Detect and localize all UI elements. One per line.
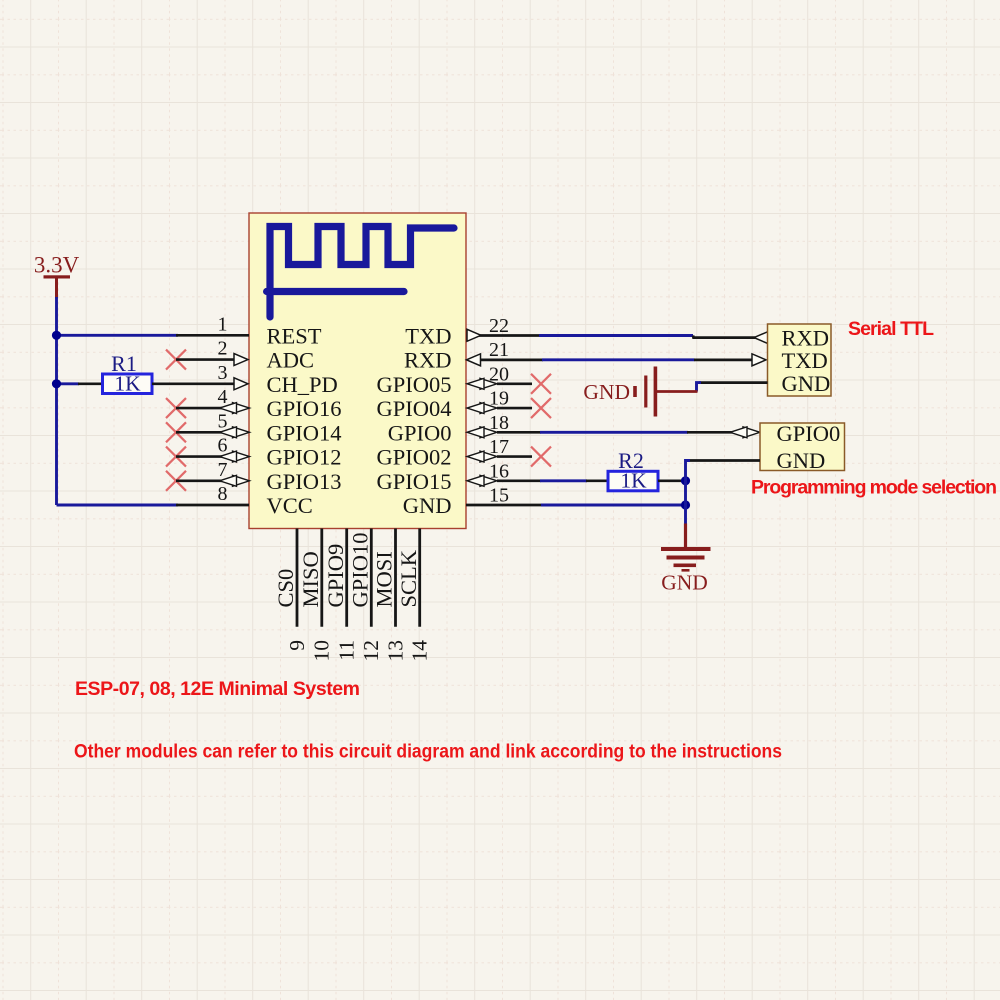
- power symbol 3.3V: [34, 253, 80, 299]
- pin 16 GPIO15 wire (black stub): [497, 479, 541, 482]
- svg-text:GND: GND: [583, 380, 630, 404]
- pin 11 GPIO9 wire: [323, 529, 359, 661]
- svg-text:5: 5: [218, 410, 228, 432]
- wire: GND rail vertical (blue): [686, 461, 691, 525]
- svg-text:GPIO10: GPIO10: [348, 532, 373, 607]
- svg-text:22: 22: [489, 315, 509, 337]
- svg-text:GND: GND: [403, 493, 452, 518]
- svg-text:Programming mode selection: Programming mode selection: [751, 477, 997, 499]
- no-connect X on pin 4: [166, 398, 186, 418]
- wire: R2 right lead: [658, 479, 686, 482]
- ground power port GND (serial): [583, 367, 697, 417]
- svg-text:GPIO04: GPIO04: [376, 396, 451, 421]
- svg-text:18: 18: [489, 412, 509, 434]
- svg-text:12: 12: [359, 640, 383, 662]
- pin 20 wire: [497, 382, 532, 385]
- wire: rail to pin 1 (blue): [57, 334, 179, 337]
- svg-text:GPIO14: GPIO14: [267, 420, 342, 445]
- pin 6 double arrow: [220, 451, 250, 462]
- pin 21 RXD wire (black stub): [480, 359, 543, 362]
- svg-text:ADC: ADC: [267, 348, 315, 373]
- pin 4 wire: [176, 386, 228, 408]
- svg-text:14: 14: [408, 640, 432, 662]
- svg-text:16: 16: [489, 460, 509, 482]
- svg-text:RXD: RXD: [404, 348, 452, 373]
- no-connect X on pin 20: [531, 374, 551, 394]
- resistor R1 1K: [103, 351, 153, 395]
- pin 12 GPIO10 wire: [348, 529, 384, 662]
- svg-text:4: 4: [218, 386, 228, 408]
- svg-text:GPIO13: GPIO13: [267, 469, 342, 494]
- svg-text:13: 13: [383, 640, 407, 662]
- wire: J2 GND lead: [688, 459, 760, 462]
- pin 8 VCC wire: [176, 483, 249, 505]
- pin 2 input arrow: [234, 354, 248, 366]
- svg-text:RXD: RXD: [782, 326, 830, 351]
- label Serial TTL: [848, 318, 934, 340]
- pin 16 double arrow: [467, 460, 509, 486]
- svg-text:GND: GND: [777, 448, 826, 473]
- pin 22 TXD wire (black stub): [479, 334, 540, 337]
- pin 20 double arrow: [467, 363, 509, 389]
- pin 7 double arrow: [220, 475, 250, 486]
- svg-text:1: 1: [218, 313, 228, 335]
- wire: TXD net (blue): [539, 334, 693, 337]
- pin 5 double arrow: [220, 427, 250, 438]
- pin 19 double arrow: [467, 388, 509, 414]
- wire: serial GND lead: [699, 381, 768, 384]
- GPIO0 header double arrow: [730, 427, 760, 438]
- svg-text:17: 17: [489, 436, 509, 458]
- svg-text:7: 7: [218, 459, 228, 481]
- svg-text:GND: GND: [782, 371, 831, 396]
- svg-text:TXD: TXD: [405, 323, 451, 348]
- svg-text:GPIO0: GPIO0: [777, 421, 841, 446]
- pin 15 GND wire (black stub): [466, 485, 542, 507]
- svg-text:CS0: CS0: [273, 569, 298, 608]
- pin 1 REST wire: [176, 313, 249, 335]
- svg-text:GPIO12: GPIO12: [267, 445, 342, 470]
- svg-text:GPIO05: GPIO05: [376, 372, 451, 397]
- pin 3 CH_PD wire: [152, 362, 235, 384]
- pin 3 input arrow: [234, 378, 248, 390]
- resistor R2 1K: [608, 448, 658, 493]
- no-connect X on pin 19: [531, 398, 551, 418]
- wire: R1 left lead: [78, 382, 102, 385]
- svg-text:Serial TTL: Serial TTL: [848, 318, 934, 340]
- wire: RXD net (blue): [542, 358, 695, 361]
- svg-text:MOSI: MOSI: [372, 551, 397, 607]
- no-connect X on pin 2: [166, 350, 186, 370]
- svg-text:6: 6: [218, 435, 228, 457]
- wire: serial TXD lead: [694, 359, 753, 362]
- no-connect X on pin 17: [531, 447, 551, 467]
- pin 7 wire: [176, 459, 228, 481]
- pin 21 input arrow: [467, 339, 510, 366]
- wire: GND corner (blue): [697, 383, 702, 392]
- pin 22 output arrow: [467, 315, 509, 342]
- svg-text:2: 2: [218, 338, 228, 360]
- svg-text:GPIO15: GPIO15: [376, 469, 451, 494]
- svg-text:11: 11: [335, 640, 359, 661]
- svg-text:21: 21: [489, 339, 509, 361]
- pin 13 MOSI wire: [372, 529, 408, 662]
- svg-text:19: 19: [489, 388, 509, 410]
- ground symbol GND (earth): [661, 524, 711, 595]
- svg-text:R1: R1: [111, 351, 137, 376]
- svg-text:3: 3: [218, 362, 228, 384]
- svg-text:GND: GND: [661, 571, 708, 595]
- svg-text:R2: R2: [618, 448, 644, 473]
- pin 19 wire: [497, 407, 532, 410]
- svg-text:MISO: MISO: [298, 551, 323, 607]
- pin 4 double arrow: [220, 403, 250, 414]
- svg-text:GPIO9: GPIO9: [323, 544, 348, 608]
- wire: GPIO0 net (blue): [540, 431, 688, 434]
- junction node R2/GND rail: [681, 476, 690, 485]
- no-connect X on pin 6: [166, 447, 186, 467]
- svg-text:TXD: TXD: [782, 348, 828, 373]
- junction node at rail/pin1: [52, 331, 61, 340]
- pin 17 double arrow: [467, 436, 509, 462]
- connector J2 GPIO0 box: [760, 421, 845, 473]
- connector J1 Serial TTL box: [768, 324, 832, 396]
- svg-text:SCLK: SCLK: [396, 549, 421, 607]
- svg-text:10: 10: [310, 640, 334, 662]
- wire: R2 left lead: [586, 479, 608, 482]
- svg-text:GPIO16: GPIO16: [267, 396, 342, 421]
- pin 14 SCLK wire: [396, 529, 432, 662]
- wire: GND net (blue): [541, 504, 687, 507]
- svg-text:GPIO0: GPIO0: [388, 420, 452, 445]
- pin 9 CS0 wire: [273, 529, 309, 651]
- svg-text:3.3V: 3.3V: [34, 253, 80, 278]
- wire: 3.3V power rail vertical: [55, 297, 58, 505]
- no-connect X on pin 5: [166, 422, 186, 442]
- svg-text:20: 20: [489, 363, 509, 385]
- ESP module U1 body: [249, 213, 466, 529]
- serial TXD arrow: [752, 354, 766, 366]
- WiFi meander antenna symbol: [267, 227, 454, 318]
- svg-text:VCC: VCC: [267, 493, 313, 518]
- label ESP-07, 08, 12E Minimal System: [75, 678, 360, 700]
- serial RXD arrow: [754, 332, 768, 344]
- svg-text:Other modules can refer to thi: Other modules can refer to this circuit …: [74, 741, 782, 763]
- pin 2 ADC wire: [176, 338, 235, 360]
- pin 18 double arrow: [467, 412, 509, 438]
- wire: GPIO15 net (blue): [540, 479, 587, 482]
- wire: rail to pin 8 (blue): [57, 504, 179, 507]
- pin 17 wire: [497, 455, 532, 458]
- label Programming mode selection: [751, 477, 997, 499]
- svg-text:8: 8: [218, 483, 228, 505]
- junction node at rail/R1: [52, 379, 61, 388]
- pin 10 MISO wire: [298, 529, 334, 662]
- pin 18 GPIO0 wire (black stub): [497, 431, 541, 434]
- svg-text:ESP-07, 08, 12E Minimal System: ESP-07, 08, 12E Minimal System: [75, 678, 360, 700]
- junction node GND net/rail: [681, 500, 690, 509]
- svg-text:CH_PD: CH_PD: [267, 372, 338, 397]
- svg-text:REST: REST: [267, 323, 322, 348]
- pin 6 wire: [176, 435, 228, 457]
- label Other modules note: [74, 741, 782, 763]
- wire: TXD to serial RXD: [693, 336, 755, 338]
- svg-text:9: 9: [285, 640, 309, 651]
- wire: GPIO0 to header: [687, 431, 732, 434]
- no-connect X on pin 7: [166, 471, 186, 491]
- svg-text:GPIO02: GPIO02: [376, 445, 451, 470]
- wire: rail stub to R1 (blue): [57, 382, 80, 385]
- svg-text:15: 15: [489, 485, 509, 507]
- pin 5 wire: [176, 410, 228, 432]
